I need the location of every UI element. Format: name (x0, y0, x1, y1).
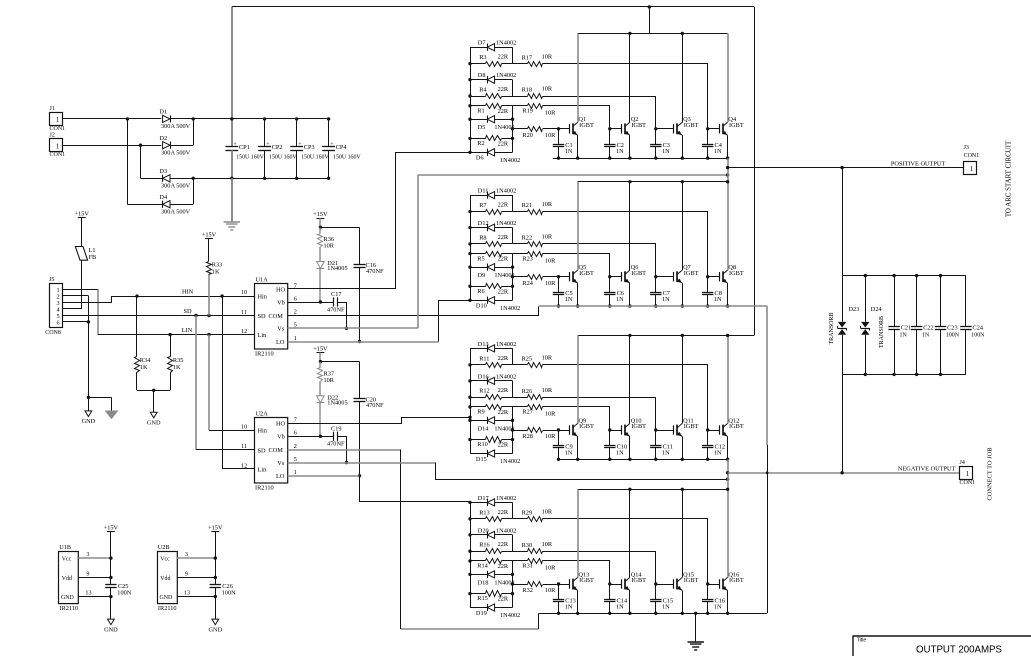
wire gate node Q12 (708, 430, 720, 432)
wire bank3 emitter to negative line (727, 459, 729, 473)
svg-text:J3: J3 (964, 145, 969, 151)
pin 9 U1B (78, 577, 111, 579)
svg-text:10R: 10R (545, 280, 556, 287)
svg-text:1K: 1K (212, 269, 220, 276)
svg-text:1N: 1N (565, 449, 573, 456)
diode D24 TRANSORB (865, 276, 867, 322)
wire D3 row left lead (141, 178, 163, 180)
capacitor C14 1N (609, 584, 611, 600)
wire Q3 emitter drop (682, 135, 684, 158)
svg-text:1N: 1N (922, 333, 930, 339)
svg-text:U2A: U2A (256, 411, 269, 418)
wire DC+ right vertical (754, 7, 756, 336)
svg-text:D18: D18 (478, 579, 489, 586)
svg-text:R7: R7 (479, 202, 486, 209)
wire Q8 emitter drop (727, 283, 729, 306)
wire + rail to caps (193, 118, 328, 120)
svg-text:10R: 10R (542, 86, 553, 93)
wire POSITIVE OUTPUT line (728, 167, 964, 169)
svg-text:22R: 22R (498, 86, 509, 93)
svg-text:9: 9 (185, 570, 188, 577)
wire D3 anode to - rail (170, 178, 193, 180)
svg-text:1N: 1N (714, 449, 722, 456)
svg-text:IR2110: IR2110 (158, 605, 177, 612)
resistor R4 22R (470, 96, 486, 98)
junction D1 row (126, 117, 129, 120)
svg-text:CON1: CON1 (50, 126, 66, 132)
wire gate node Q5 (559, 276, 570, 278)
svg-text:IGBT: IGBT (579, 423, 594, 430)
svg-text:3: 3 (185, 551, 188, 558)
capacitor C1 1N (558, 129, 560, 145)
ground earth symbol below CP1 (224, 221, 241, 223)
svg-text:R32: R32 (522, 587, 533, 594)
svg-text:R10: R10 (477, 441, 488, 448)
wire bank1 emitter rail (553, 158, 728, 160)
wire C17 to Vs (346, 302, 348, 328)
wire D4 anode up to - rail (170, 204, 193, 206)
svg-text:COM: COM (269, 447, 284, 454)
svg-text:1N: 1N (714, 603, 722, 610)
svg-text:22R: 22R (498, 409, 509, 416)
svg-text:Vcc: Vcc (62, 557, 72, 563)
svg-text:L1: L1 (89, 247, 96, 254)
svg-text:D17: D17 (478, 495, 489, 502)
svg-text:R21: R21 (522, 202, 533, 209)
capacitor C12 1N (707, 430, 709, 446)
svg-text:10R: 10R (545, 257, 556, 264)
wire bank4 collector rail (578, 489, 728, 491)
wire pair vertical D20/R16 (512, 535, 514, 551)
svg-text:HO: HO (276, 286, 286, 293)
capacitor C7 1N (655, 277, 657, 293)
wire CP1 column to ground (231, 178, 233, 221)
wire bank3 emitter rail (559, 459, 728, 461)
wire bank4 emitter rail (539, 613, 767, 615)
wire bank1 left bus (470, 47, 472, 152)
svg-text:22R: 22R (498, 140, 509, 147)
svg-text:150U 160V: 150U 160V (236, 155, 264, 161)
svg-text:10: 10 (241, 424, 247, 431)
wire Q9 collector drop (577, 335, 579, 423)
wire U2A LO to bank4 bus (288, 475, 360, 477)
svg-text:IGBT: IGBT (684, 270, 699, 277)
junction ground node (87, 396, 90, 399)
wire bank2 left bus (470, 195, 472, 300)
svg-text:1K: 1K (140, 364, 148, 371)
capacitor CP1 150U 160V (231, 119, 233, 147)
junction - rail (192, 177, 195, 180)
diode D21 1N4005 (317, 262, 325, 269)
resistor R12 22R (470, 397, 486, 399)
transistor Q8 IGBT (719, 272, 721, 281)
svg-text:IGBT: IGBT (684, 122, 699, 129)
svg-text:Vdd: Vdd (62, 576, 72, 582)
resistor R9 22R (470, 406, 486, 408)
svg-text:D5: D5 (478, 124, 486, 131)
svg-text:Vcc: Vcc (160, 557, 170, 563)
svg-text:R20: R20 (522, 132, 533, 139)
wire Q10 emitter drop (629, 437, 631, 460)
wire pair vertical D10/R6 (512, 286, 514, 300)
svg-text:CON1: CON1 (964, 153, 980, 159)
svg-text:1N: 1N (616, 148, 624, 155)
wire Q9 emitter drop (577, 437, 579, 460)
transistor Q15 IGBT (673, 579, 675, 588)
svg-text:10R: 10R (545, 411, 556, 418)
diode D20 1N4002 (470, 534, 487, 536)
wire R31 to gate (543, 561, 610, 585)
resistor R22 10R (513, 243, 528, 245)
svg-text:IGBT: IGBT (729, 270, 744, 277)
wire rectifier bus vertical J1-D4 (127, 119, 129, 204)
svg-text:GND: GND (160, 595, 174, 601)
svg-text:OUTPUT 200AMPS: OUTPUT 200AMPS (916, 644, 1002, 655)
diode D22 1N4005 (317, 396, 325, 403)
capacitor C16 1N (707, 584, 709, 600)
junction D2 row (139, 144, 142, 147)
svg-text:10R: 10R (542, 201, 553, 208)
svg-text:1: 1 (294, 469, 297, 476)
wire bank2 emitter rail (539, 305, 768, 307)
wire R22 to gate (543, 244, 656, 277)
svg-text:2: 2 (294, 443, 297, 450)
wire Q5 collector drop (577, 182, 579, 270)
wire R21 to gate (543, 212, 708, 277)
wire pair vertical D14/R9 (512, 407, 514, 420)
wire gate node Q3 (656, 128, 674, 130)
resistor R24 10R (513, 276, 528, 278)
wire pair vertical D16/R12 (512, 381, 514, 397)
svg-text:IR2110: IR2110 (255, 485, 274, 492)
pin 13 U2B (177, 596, 215, 598)
svg-text:GND: GND (104, 626, 118, 633)
diode D5 1N4002 (470, 119, 487, 121)
svg-text:Vdd: Vdd (160, 576, 170, 582)
wire ground drop (88, 322, 90, 398)
transistor Q11 IGBT (673, 425, 675, 434)
svg-text:Hin: Hin (258, 428, 268, 435)
wire pair vertical D8/R4 (512, 80, 514, 96)
wire Q7 collector drop (682, 182, 684, 270)
resistor R21 10R (513, 211, 528, 213)
capacitor C13 1N (558, 584, 560, 600)
wire to hatched ground (88, 397, 111, 399)
svg-text:R30: R30 (522, 542, 533, 549)
connector J2 CON1 (50, 139, 63, 152)
junction D21/Vb (319, 300, 322, 303)
svg-text:U1B: U1B (59, 544, 71, 551)
svg-text:CP3: CP3 (304, 144, 315, 151)
wire U1A Vs line (288, 327, 418, 329)
capacitor C15 1N (655, 584, 657, 600)
svg-text:300A 500V: 300A 500V (161, 209, 191, 216)
wire bank3 collector rail (578, 335, 728, 337)
svg-text:10R: 10R (545, 132, 556, 139)
svg-text:10R: 10R (545, 109, 556, 116)
resistor R19 10R (513, 105, 528, 107)
wire bank2 emitter to bank4 emitter (766, 306, 768, 445)
svg-text:R25: R25 (522, 356, 533, 363)
svg-text:1N4002: 1N4002 (500, 458, 520, 465)
transistor Q2 IGBT (621, 124, 623, 133)
diode D6 1N4002 (470, 152, 487, 154)
svg-text:10R: 10R (542, 53, 553, 60)
svg-text:IGBT: IGBT (729, 423, 744, 430)
resistor R13 22R (470, 518, 486, 520)
svg-text:1: 1 (56, 143, 59, 150)
svg-text:Vb: Vb (277, 299, 285, 306)
svg-text:U2B: U2B (158, 544, 170, 551)
svg-text:R31: R31 (522, 563, 533, 570)
wire gate node Q8 (708, 276, 720, 278)
wire pair vertical D15/R10 (512, 440, 514, 454)
wire bank1 emitter to positive line (727, 158, 729, 168)
diode D16 1N4002 (470, 380, 487, 382)
junction LIN/R35 (168, 333, 171, 336)
svg-text:TO ARC START CIRCUIT: TO ARC START CIRCUIT (1006, 140, 1013, 217)
svg-text:R22: R22 (522, 235, 533, 242)
wire gate node Q13 (559, 584, 570, 586)
transistor Q7 IGBT (673, 272, 675, 281)
diode D2 300A 500V (163, 142, 170, 149)
wire R24 to gate (543, 276, 559, 278)
wire snubber to negative (842, 374, 844, 472)
capacitor C9 1N (558, 430, 560, 446)
junction bank3 emitter / negative (726, 471, 729, 474)
wire gate node Q6 (610, 276, 622, 278)
wire rectifier bus vertical J2-D3 (140, 145, 142, 178)
svg-text:150U 160V: 150U 160V (333, 155, 361, 161)
wire Q15 collector drop (682, 489, 684, 577)
connector J4 CON1 (960, 467, 973, 480)
wire R18 to gate (543, 97, 656, 129)
svg-text:R12: R12 (479, 388, 490, 395)
svg-text:100N: 100N (222, 589, 236, 596)
svg-text:+15V: +15V (208, 524, 223, 531)
wire LIN to U2A Hin (208, 335, 210, 431)
svg-text:R24: R24 (522, 280, 533, 287)
wire R20 to gate (543, 128, 559, 130)
resistor R29 10R (513, 518, 528, 520)
wire gate node Q7 (656, 276, 674, 278)
wire bank3 rail to DC+ vertical (728, 335, 754, 337)
resistor R11 22R (470, 364, 486, 366)
svg-text:Vs: Vs (277, 460, 285, 467)
svg-text:6: 6 (56, 320, 59, 327)
ground GND arrow U2B (215, 597, 217, 620)
wire snubber top rail (842, 275, 966, 277)
wire gate node Q10 (610, 430, 622, 432)
svg-text:TRANSORB: TRANSORB (829, 312, 835, 344)
svg-text:1N4002: 1N4002 (496, 373, 516, 380)
svg-text:R13: R13 (479, 509, 490, 516)
wire bank4 rail to negative line (727, 473, 729, 490)
svg-text:GND: GND (147, 420, 161, 427)
capacitor CP4 150U 160V (328, 119, 330, 147)
capacitor C3 1N (655, 129, 657, 145)
resistor R26 10R (513, 397, 528, 399)
svg-text:IR2110: IR2110 (255, 350, 274, 357)
svg-text:CONNECT TO JOB: CONNECT TO JOB (987, 448, 994, 501)
svg-text:SD: SD (258, 447, 267, 454)
wire bank1 collector rail (578, 33, 728, 35)
capacitor C24 100N (965, 276, 967, 327)
svg-text:1: 1 (294, 335, 297, 342)
svg-text:1K: 1K (173, 364, 181, 371)
capacitor CP2 150U 160V (264, 119, 266, 147)
svg-text:10R: 10R (545, 433, 556, 440)
svg-text:Lin: Lin (258, 332, 268, 339)
wire C19 to Vs (346, 436, 348, 462)
svg-text:100N: 100N (971, 333, 985, 339)
capacitor C19 470NF Vb series (288, 436, 334, 438)
wire pair vertical D13/R11 (512, 348, 514, 365)
svg-text:NEGATIVE OUTPUT: NEGATIVE OUTPUT (898, 466, 956, 473)
junction pin2/pin6 (87, 320, 90, 323)
junction CP1 top (230, 117, 233, 120)
wire NEGATIVE OUTPUT line (728, 472, 960, 474)
resistor R37 10R (319, 362, 321, 368)
wire Q13 collector drop (577, 489, 579, 577)
connector J3 CON1 (964, 162, 977, 175)
capacitor C22 1N (916, 276, 918, 327)
resistor R18 10R (513, 96, 528, 98)
svg-text:1: 1 (56, 117, 59, 124)
resistor R25 10R (513, 364, 528, 366)
wire Q16 emitter drop (727, 591, 729, 614)
wire pair3-pair4 link (512, 267, 514, 286)
svg-text:IGBT: IGBT (631, 423, 646, 430)
svg-text:D13: D13 (478, 341, 489, 348)
svg-text:Lin: Lin (258, 467, 268, 474)
wire bank3 left bus (470, 348, 472, 453)
svg-text:6: 6 (294, 430, 297, 437)
svg-text:R9: R9 (477, 409, 484, 416)
resistor R23 10R (513, 253, 528, 255)
wire R17 to gate (543, 64, 708, 129)
svg-text:6: 6 (294, 295, 297, 302)
svg-text:10R: 10R (542, 355, 553, 362)
svg-text:10R: 10R (542, 509, 553, 516)
resistor R30 10R (513, 551, 528, 553)
wire gate node Q1 (559, 128, 570, 130)
resistor R16 22R (470, 551, 486, 553)
svg-text:1N4002: 1N4002 (500, 612, 520, 619)
svg-text:300A 500V: 300A 500V (161, 183, 191, 190)
svg-text:D2: D2 (159, 135, 167, 142)
svg-text:1: 1 (966, 471, 969, 478)
resistor R1 22R (470, 105, 486, 107)
svg-text:IGBT: IGBT (631, 270, 646, 277)
junction Vs/C17 (345, 327, 348, 330)
svg-text:10R: 10R (542, 541, 553, 548)
svg-text:300A 500V: 300A 500V (161, 150, 191, 157)
svg-text:HIN: HIN (182, 289, 194, 296)
capacitor C10 1N (609, 430, 611, 446)
wire bank2 collector rail (578, 181, 728, 183)
resistor R32 10R (513, 584, 528, 586)
svg-text:D16: D16 (478, 373, 489, 380)
wire pair vertical D11/R7 (512, 195, 514, 212)
resistor R17 10R (513, 63, 528, 65)
wire Q12 collector drop (727, 335, 729, 423)
transistor Q12 IGBT (719, 425, 721, 434)
wire R27 to gate (543, 407, 610, 431)
svg-text:D9: D9 (478, 272, 486, 279)
svg-text:1N4002: 1N4002 (496, 188, 516, 195)
capacitor C16 470NF bootstrap (320, 227, 359, 229)
svg-text:R2: R2 (477, 140, 484, 147)
junction +15V node (319, 360, 322, 363)
wire pair3-pair4 link (512, 574, 514, 593)
svg-text:100N: 100N (946, 333, 960, 339)
svg-text:CON1: CON1 (50, 152, 66, 158)
diode D8 1N4002 (470, 79, 487, 81)
svg-text:10R: 10R (542, 234, 553, 241)
resistor R31 10R (513, 560, 528, 562)
resistor R34 1K (136, 296, 138, 356)
resistor R36 10R (319, 227, 321, 233)
svg-text:J2: J2 (50, 133, 55, 139)
svg-text:D6: D6 (476, 155, 484, 162)
pin 3 U1B (78, 557, 111, 559)
capacitor C11 1N (655, 430, 657, 446)
svg-text:1N: 1N (662, 603, 670, 610)
svg-text:13: 13 (184, 589, 190, 596)
wire R19 to gate (543, 106, 610, 129)
svg-text:13: 13 (85, 589, 91, 596)
wire L1 to J5 pin4 (81, 260, 83, 309)
wire R25 to gate (543, 365, 708, 431)
wire R30 to gate (543, 552, 656, 585)
wire LIN net (98, 334, 254, 336)
resistor R10 22R (470, 439, 486, 441)
resistor R33 1K (208, 239, 210, 262)
wire pair vertical D7/R3 (512, 47, 514, 64)
wire J5 pin6 to ground (63, 321, 89, 323)
svg-text:IR2110: IR2110 (59, 605, 78, 612)
wire +15V to L1 (81, 218, 83, 247)
junction HIN/U2A-Lin drop (220, 294, 223, 297)
svg-text:R34: R34 (140, 357, 151, 364)
svg-text:LO: LO (276, 339, 285, 346)
svg-text:J4: J4 (960, 460, 965, 466)
junction SD/R33 (207, 314, 210, 317)
junction Vs/C19 (345, 461, 348, 464)
diode D10 1N4002 (470, 300, 487, 302)
wire HIN net (111, 296, 254, 298)
svg-text:FB: FB (89, 254, 97, 261)
svg-text:470NF: 470NF (366, 268, 384, 275)
diode D4 300A 500V (163, 201, 170, 208)
op-amp U2B IR2110 supply part (158, 552, 178, 604)
svg-text:LIN: LIN (182, 327, 193, 334)
svg-text:1N4002: 1N4002 (496, 495, 516, 502)
svg-text:IGBT: IGBT (729, 122, 744, 129)
svg-text:1: 1 (970, 166, 973, 173)
svg-text:7: 7 (294, 417, 297, 424)
transistor Q3 IGBT (673, 124, 675, 133)
svg-text:R16: R16 (479, 542, 490, 549)
svg-text:+: + (298, 142, 302, 148)
svg-text:R5: R5 (477, 255, 484, 262)
svg-text:D24: D24 (871, 306, 883, 313)
wire Q12 emitter drop (727, 437, 729, 460)
svg-text:D12: D12 (478, 220, 489, 227)
svg-text:R8: R8 (479, 234, 486, 241)
svg-text:D3: D3 (159, 168, 167, 175)
